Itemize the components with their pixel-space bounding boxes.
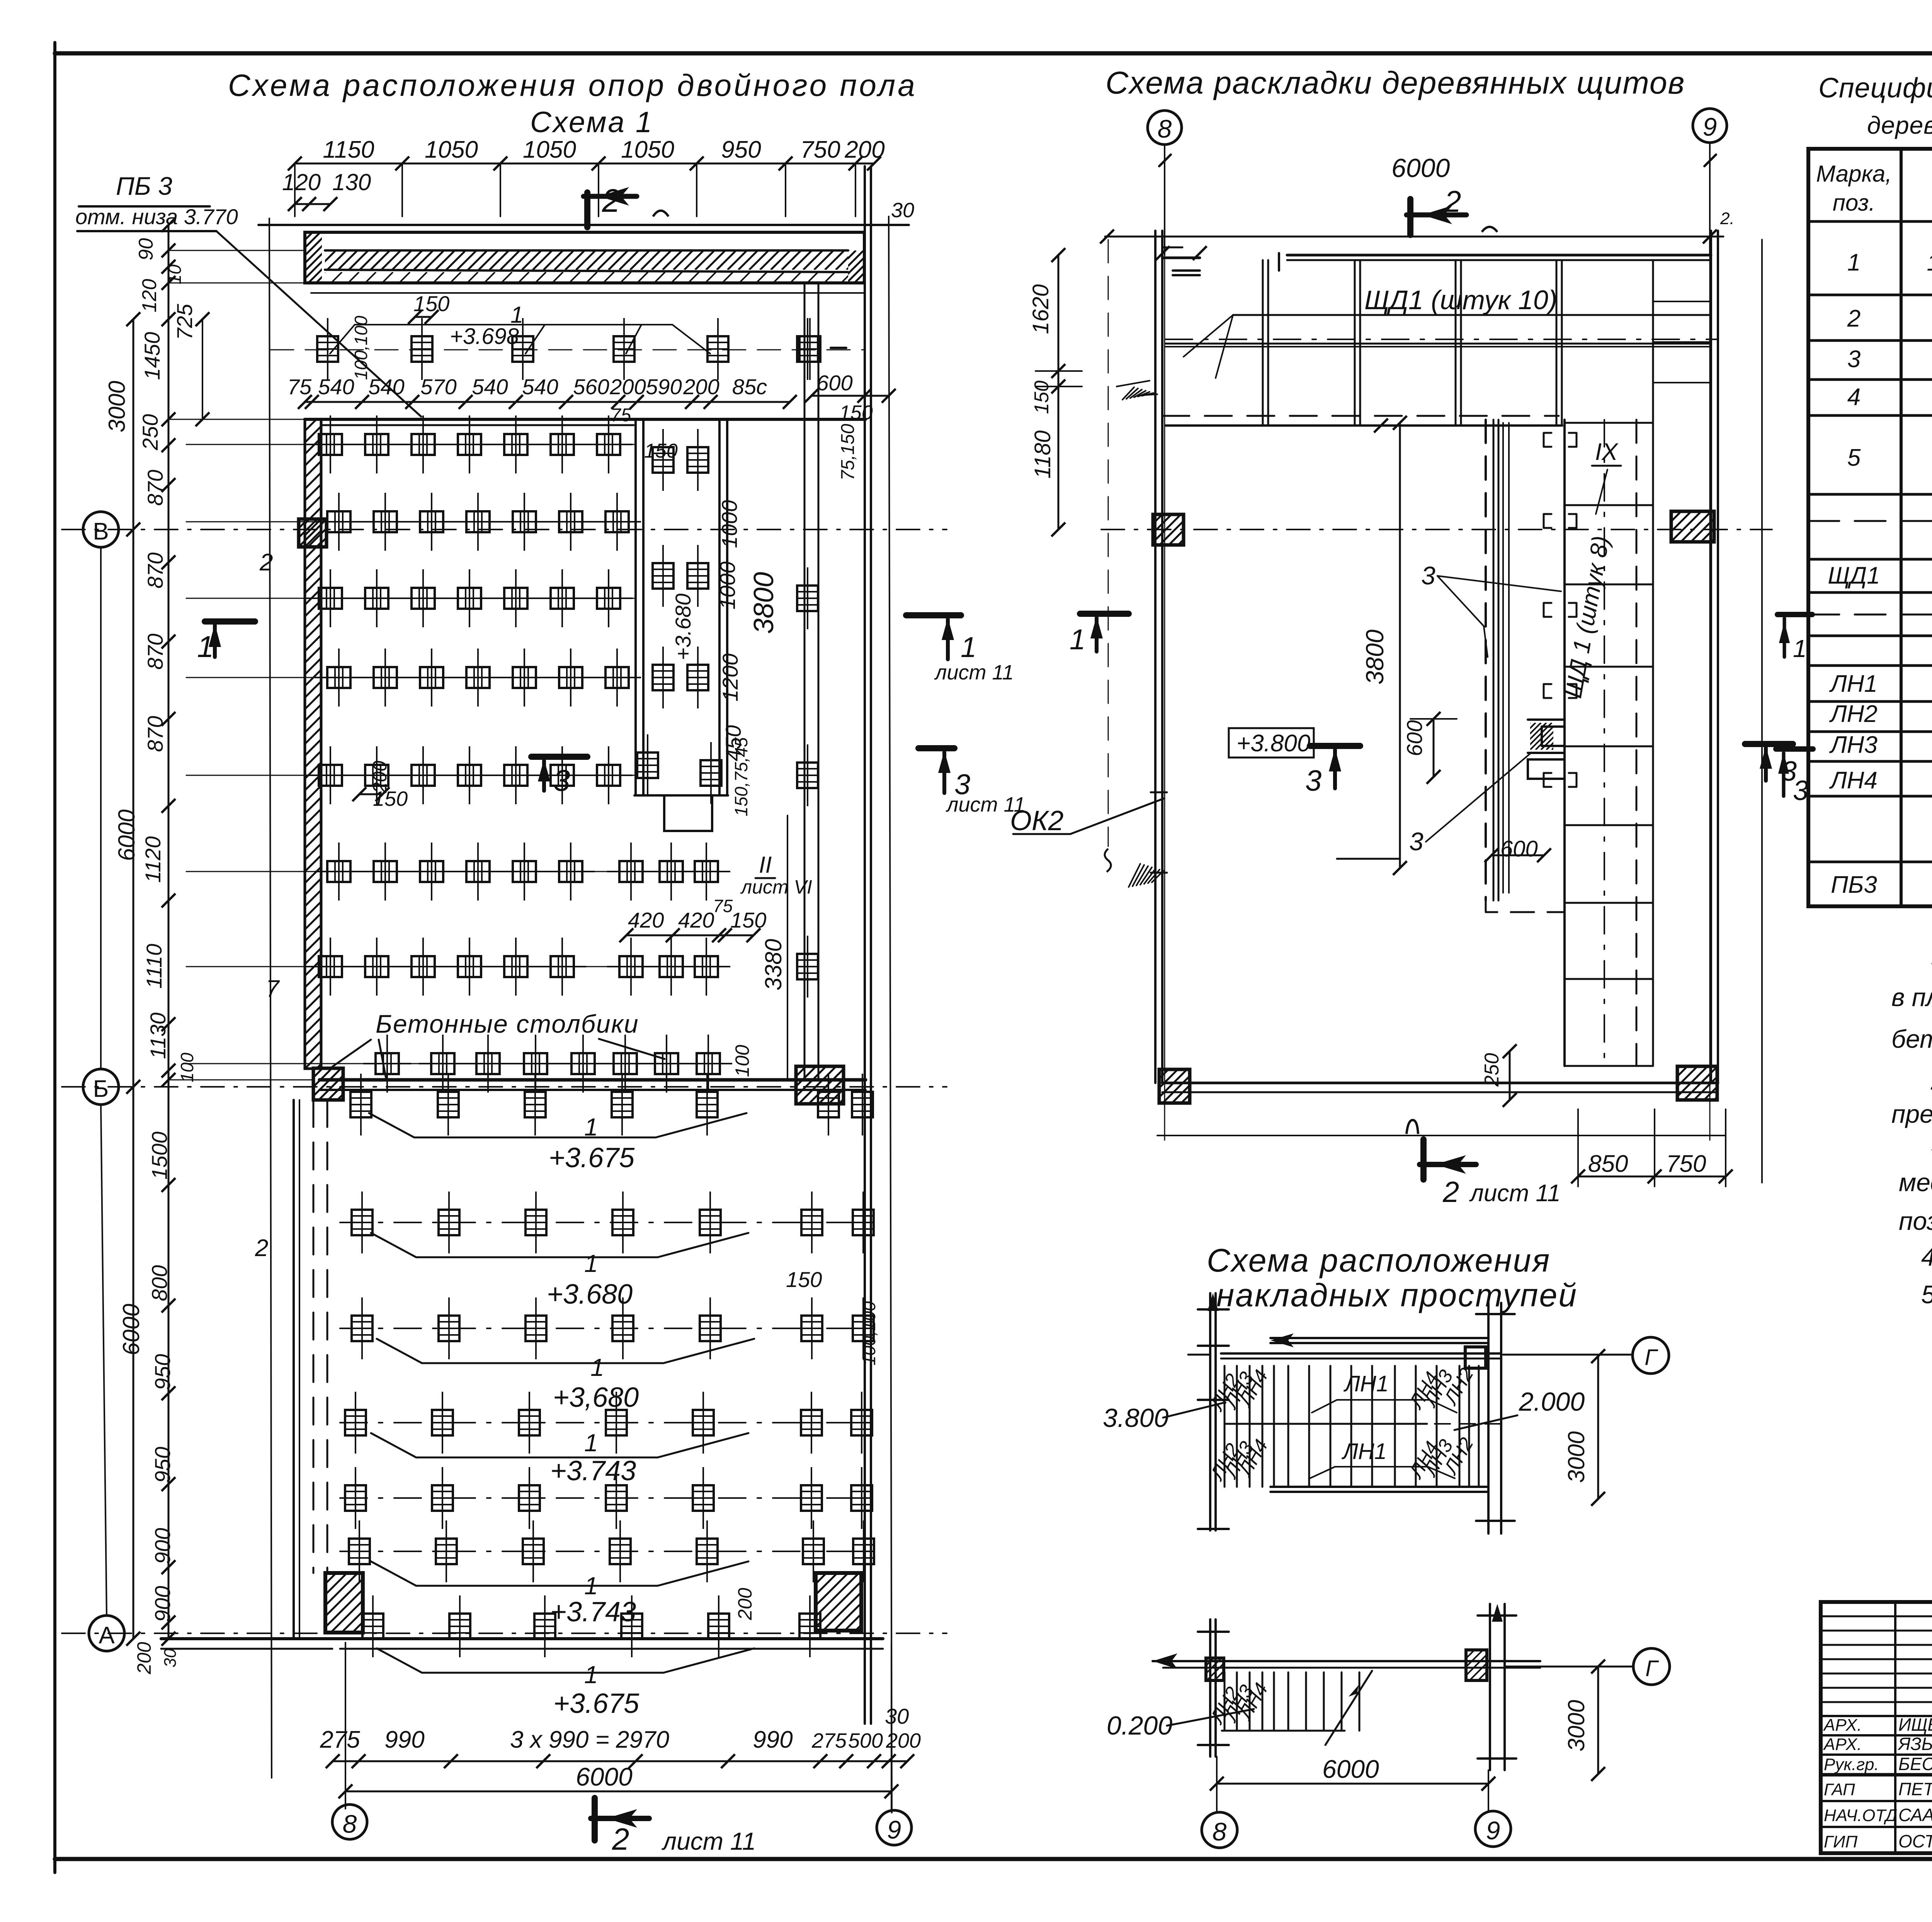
label IX bbox=[1592, 439, 1621, 514]
svg-text:поз.: поз. bbox=[1833, 190, 1875, 216]
label OK2 with leader bbox=[1010, 798, 1164, 836]
svg-text:ЛН1: ЛН1 bbox=[1341, 1439, 1387, 1464]
svg-text:570: 570 bbox=[420, 375, 456, 399]
svg-text:А: А bbox=[99, 1622, 115, 1649]
upper stair annotation 2.000 bbox=[1454, 1387, 1585, 1430]
svg-text:Рук.гр.: Рук.гр. bbox=[1824, 1755, 1879, 1774]
svg-text:3800: 3800 bbox=[748, 572, 779, 634]
upper stair corner block bbox=[1465, 1347, 1486, 1368]
svg-text:150: 150 bbox=[786, 1267, 822, 1292]
svg-text:200: 200 bbox=[734, 1588, 756, 1621]
svg-text:1: 1 bbox=[584, 1250, 598, 1277]
svg-text:200: 200 bbox=[609, 375, 646, 399]
svg-text:3000: 3000 bbox=[104, 381, 130, 432]
svg-text:накладных проступей: накладных проступей bbox=[1216, 1277, 1578, 1313]
svg-text:ЛН1: ЛН1 bbox=[1343, 1371, 1389, 1396]
spec table rows text bbox=[1828, 234, 1932, 898]
elevation box +3.800 bbox=[1229, 728, 1314, 758]
svg-text:850: 850 bbox=[1588, 1151, 1628, 1177]
svg-text:275: 275 bbox=[320, 1726, 360, 1753]
axis G lower bbox=[1506, 1648, 1670, 1685]
left exterior wall hatched bbox=[0, 419, 977, 1069]
svg-text:1. 400-15. В l. 120-50: 1. 400-15. В l. 120-50 bbox=[1927, 250, 1932, 276]
svg-text:560: 560 bbox=[573, 375, 609, 399]
svg-text:900: 900 bbox=[150, 1528, 175, 1564]
lower room axis dashdot rows bbox=[340, 1222, 881, 1551]
svg-text:75: 75 bbox=[713, 896, 733, 916]
lower stair labels bbox=[1206, 1679, 1272, 1728]
dim 250 rotated bbox=[1481, 1044, 1517, 1107]
svg-text:75: 75 bbox=[287, 375, 312, 399]
middle plan 6000 dim bbox=[1100, 153, 1723, 243]
spec table title bbox=[1818, 73, 1932, 139]
svg-text:3800: 3800 bbox=[1361, 629, 1389, 684]
section flag 2 top bbox=[583, 182, 668, 227]
section flag 2 bottom bbox=[591, 1798, 756, 1856]
svg-text:3.800: 3.800 bbox=[1103, 1403, 1168, 1433]
svg-text:870: 870 bbox=[143, 552, 167, 588]
svg-text:4. Узел IX смотрите на ли: 4. Узел IX смотрите на листе 11. bbox=[1921, 1243, 1932, 1271]
svg-text:1620: 1620 bbox=[1028, 284, 1053, 334]
middle plan bottom corner blocks bbox=[1126, 1066, 1758, 1103]
axis B(b) row bbox=[62, 1069, 947, 1105]
middle plan dims left 1620 150 1180 bbox=[1028, 248, 1082, 536]
stair axis circles 8 9 bbox=[1202, 1757, 1511, 1848]
dim 3800 rotated middle bbox=[1361, 416, 1407, 875]
lower stair wall line with blocks bbox=[1153, 1650, 1540, 1680]
svg-text:+3,680: +3,680 bbox=[553, 1382, 639, 1413]
right channel corridor verticals bbox=[311, 283, 865, 1080]
svg-text:2: 2 bbox=[602, 182, 620, 219]
svg-text:950: 950 bbox=[150, 1354, 175, 1390]
svg-text:в плане 200х150) н стенки: в плане 200х150) н стенки канала выполни… bbox=[1891, 983, 1932, 1011]
svg-text:+3.675: +3.675 bbox=[553, 1688, 639, 1719]
svg-text:1: 1 bbox=[197, 630, 214, 664]
middle plan axis circles top bbox=[1148, 109, 1727, 255]
svg-text:АРХ.: АРХ. bbox=[1823, 1735, 1862, 1754]
svg-text:1: 1 bbox=[584, 1661, 598, 1689]
flags 1 and 3 between plans bbox=[906, 615, 1026, 816]
svg-text:5: 5 bbox=[1847, 444, 1861, 471]
svg-text:150: 150 bbox=[644, 440, 678, 462]
dim 120 130 bbox=[282, 169, 371, 211]
svg-text:2: 2 bbox=[1847, 305, 1861, 332]
svg-text:Схема расположения опор двой: Схема расположения опор двойного пола bbox=[228, 68, 917, 102]
svg-text:Б: Б bbox=[93, 1076, 109, 1102]
svg-text:100: 100 bbox=[177, 1052, 197, 1082]
svg-text:3: 3 bbox=[1793, 775, 1808, 806]
upper stair bottom lines bbox=[1270, 1487, 1488, 1492]
Betonnye stolbiki label bbox=[332, 1010, 665, 1080]
svg-text:АРХ.: АРХ. bbox=[1823, 1716, 1862, 1735]
window OK2 ticks on wall bbox=[1151, 792, 1167, 873]
svg-text:3: 3 bbox=[1409, 827, 1423, 856]
svg-text:75: 75 bbox=[611, 405, 631, 426]
upper stair top landing lines bbox=[1221, 1333, 1501, 1359]
section flag 2 bottom middle plan bbox=[1406, 1120, 1561, 1209]
svg-text:СААКЬЯНЦ: СААКЬЯНЦ bbox=[1898, 1805, 1932, 1825]
svg-text:ГИП: ГИП bbox=[1824, 1832, 1857, 1851]
svg-text:9: 9 bbox=[1703, 112, 1717, 141]
panel field verticals bbox=[1162, 260, 1718, 432]
svg-text:800: 800 bbox=[147, 1265, 172, 1301]
elevation labels lower room bbox=[371, 1233, 754, 1719]
svg-text:950: 950 bbox=[150, 1447, 175, 1483]
svg-text:ПБ3: ПБ3 bbox=[1831, 872, 1877, 898]
left plan top dimension line bbox=[288, 136, 885, 216]
dim labels right side lower room bbox=[734, 1267, 879, 1621]
svg-text:120: 120 bbox=[282, 169, 321, 195]
svg-text:8: 8 bbox=[1213, 1817, 1227, 1846]
svg-text:600: 600 bbox=[1402, 720, 1427, 756]
svg-text:870: 870 bbox=[143, 633, 167, 669]
svg-text:5. ОК2 учтено в спецификац: 5. ОК2 учтено в спецификации на листе 9. bbox=[1921, 1280, 1932, 1309]
svg-text:+3.743: +3.743 bbox=[550, 1456, 636, 1486]
lower stair rails bbox=[1198, 1604, 1516, 1770]
svg-text:+3.680: +3.680 bbox=[547, 1279, 633, 1310]
svg-text:500: 500 bbox=[848, 1729, 883, 1752]
upper stair treads bbox=[1225, 1366, 1501, 1487]
left wall below B dashed bbox=[294, 1100, 327, 1639]
upper stair left rail bbox=[1198, 1293, 1229, 1530]
label 3 lower and 600 dim bbox=[1337, 754, 1551, 862]
svg-text:поз. 5 (см. узлы II ; III: поз. 5 (см. узлы II ; III на листе 11). bbox=[1899, 1207, 1932, 1235]
upper room supports grid bbox=[306, 415, 641, 996]
svg-text:200: 200 bbox=[683, 375, 719, 399]
svg-text:Схема раскладки деревянных щит: Схема раскладки деревянных щитов bbox=[1105, 65, 1685, 100]
svg-text:150: 150 bbox=[730, 908, 766, 932]
canal vertical walls in upper room bbox=[607, 419, 730, 996]
flag 3 in left plan bbox=[531, 757, 587, 797]
svg-text:2: 2 bbox=[1442, 1176, 1459, 1209]
elevation label +3.675 upper bbox=[369, 1113, 747, 1173]
svg-text:Спецификация к схемам располож: Спецификация к схемам расположения опор … bbox=[1818, 73, 1932, 104]
svg-text:1450: 1450 bbox=[140, 332, 164, 380]
svg-text:лист 11: лист 11 bbox=[934, 661, 1014, 684]
svg-text:590: 590 bbox=[646, 375, 682, 399]
svg-text:1: 1 bbox=[1847, 249, 1861, 276]
wall at axis B bbox=[282, 1066, 886, 1104]
upper zone +3.698 supports row bbox=[270, 291, 865, 380]
stair step detail hatched bbox=[1503, 720, 1584, 779]
svg-text:бетона марки 150.: бетона марки 150. bbox=[1891, 1025, 1932, 1053]
svg-text:3: 3 bbox=[1305, 764, 1321, 797]
svg-text:БЕСКОРОВАЙНЫЙ: БЕСКОРОВАЙНЫЙ bbox=[1898, 1753, 1932, 1774]
svg-text:100: 100 bbox=[731, 1045, 753, 1077]
svg-text:+3.743: +3.743 bbox=[550, 1597, 636, 1627]
svg-text:Г: Г bbox=[1645, 1345, 1658, 1370]
dim 3000 upper stair bbox=[1563, 1349, 1605, 1506]
svg-text:100,100: 100,100 bbox=[859, 1301, 879, 1365]
svg-text:275: 275 bbox=[811, 1729, 847, 1752]
svg-text:НАЧ.ОТД: НАЧ.ОТД bbox=[1824, 1806, 1897, 1825]
svg-text:30: 30 bbox=[885, 1704, 909, 1728]
svg-text:2.: 2. bbox=[1720, 209, 1735, 228]
upper stair annotation 3.800 bbox=[1103, 1403, 1223, 1433]
section line 2 vertical bbox=[255, 218, 280, 1778]
panel label SchD1 shtuk 10 bbox=[1184, 285, 1557, 378]
svg-text:540: 540 bbox=[318, 375, 354, 399]
svg-text:ЩД1: ЩД1 bbox=[1828, 562, 1880, 589]
lower stair annotation 0.200 bbox=[1107, 1709, 1254, 1740]
svg-text:ЩД1 (штук 10): ЩД1 (штук 10) bbox=[1364, 285, 1557, 315]
svg-text:Схема расположения: Схема расположения bbox=[1207, 1242, 1551, 1278]
svg-text:1150: 1150 bbox=[323, 136, 374, 163]
svg-text:130: 130 bbox=[332, 169, 371, 195]
bottom wall and corner blocks bbox=[161, 1573, 924, 1649]
notes text bbox=[1891, 941, 1932, 1309]
svg-text:Г: Г bbox=[1645, 1656, 1659, 1681]
middle plan outer walls bbox=[1155, 231, 1726, 1135]
svg-text:1: 1 bbox=[1070, 623, 1085, 655]
svg-text:ГАП: ГАП bbox=[1824, 1780, 1855, 1799]
svg-text:420: 420 bbox=[678, 908, 714, 932]
axis B wall block bbox=[271, 519, 364, 547]
svg-text:990: 990 bbox=[753, 1726, 793, 1753]
svg-text:+3.680: +3.680 bbox=[671, 594, 695, 661]
svg-text:1: 1 bbox=[1793, 635, 1807, 662]
svg-text:990: 990 bbox=[384, 1726, 424, 1753]
svg-text:750: 750 bbox=[1666, 1151, 1706, 1177]
svg-text:ЛН4: ЛН4 bbox=[1829, 767, 1878, 794]
axis circles 8 9 bottom left plan bbox=[332, 1805, 912, 1845]
svg-text:ИЩЕНКО: ИЩЕНКО bbox=[1898, 1714, 1932, 1735]
svg-text:0.200: 0.200 bbox=[1107, 1711, 1172, 1740]
supports above wall B bbox=[363, 1035, 732, 1093]
middle plan axis thin verticals bbox=[1165, 255, 1710, 1140]
svg-text:Схема 1: Схема 1 bbox=[530, 106, 653, 139]
svg-text:Марка,: Марка, bbox=[1816, 161, 1892, 187]
svg-text:ОСТАШЕВСКИЙ: ОСТАШЕВСКИЙ bbox=[1898, 1831, 1932, 1851]
svg-text:3 х 990 = 2970: 3 х 990 = 2970 bbox=[510, 1726, 669, 1753]
svg-text:540: 540 bbox=[472, 375, 508, 399]
svg-text:750: 750 bbox=[800, 136, 840, 163]
svg-text:2.000: 2.000 bbox=[1519, 1387, 1585, 1416]
panel connectors clips bbox=[1544, 433, 1577, 787]
stair treads right column bbox=[1565, 260, 1711, 1066]
spec table grid bbox=[1808, 149, 1932, 906]
axis 9 line left plan bbox=[889, 216, 892, 1813]
spec table header text bbox=[1816, 160, 1932, 216]
svg-text:1: 1 bbox=[590, 1353, 604, 1381]
middle plan axis B dashdot bbox=[1101, 529, 1772, 530]
dim extension dashed line left of middle plan bbox=[1105, 240, 1762, 1183]
svg-text:1050: 1050 bbox=[425, 136, 478, 163]
section flags left of table bbox=[1776, 615, 1813, 806]
svg-text:1200: 1200 bbox=[718, 654, 742, 702]
middle plan wall blocks axis B bbox=[1122, 511, 1752, 545]
dims 850 750 bottom right bbox=[1571, 1109, 1733, 1187]
svg-text:9: 9 bbox=[887, 1815, 901, 1844]
svg-text:540: 540 bbox=[522, 375, 558, 399]
left dim ladder vertical lines bbox=[101, 218, 325, 1646]
svg-text:II: II bbox=[759, 852, 772, 878]
svg-text:2: 2 bbox=[255, 1235, 268, 1261]
label 3 with leaders middle bbox=[1421, 561, 1561, 657]
svg-text:3: 3 bbox=[553, 763, 570, 797]
svg-text:3000: 3000 bbox=[1563, 1700, 1589, 1751]
svg-text:IX: IX bbox=[1595, 439, 1619, 465]
svg-text:600: 600 bbox=[1500, 836, 1538, 861]
svg-text:1110: 1110 bbox=[142, 944, 166, 989]
svg-text:местах примыкания к каналу: местах примыкания к каналу обрамить угол… bbox=[1899, 1168, 1932, 1197]
svg-text:+3.800: +3.800 bbox=[1236, 730, 1310, 757]
svg-text:2: 2 bbox=[1444, 184, 1461, 218]
svg-text:3000: 3000 bbox=[1563, 1431, 1589, 1483]
svg-text:6000: 6000 bbox=[114, 809, 139, 861]
middle plan top stubs bbox=[1173, 253, 1279, 275]
svg-text:725: 725 bbox=[172, 303, 197, 340]
svg-text:1120: 1120 bbox=[141, 836, 165, 883]
upper zone dim row 75 540 ... bbox=[287, 199, 914, 426]
upper room row lines bbox=[186, 444, 636, 1064]
stair well dashed boundary bbox=[1486, 420, 1565, 912]
svg-text:1180: 1180 bbox=[1030, 431, 1055, 479]
flag 1 in left plan bbox=[197, 621, 255, 664]
svg-text:ПЕТРОВСКИЙ: ПЕТРОВСКИЙ bbox=[1898, 1779, 1932, 1799]
svg-text:1500: 1500 bbox=[147, 1132, 172, 1180]
section flag 3 middle plan bbox=[1305, 746, 1360, 797]
svg-text:6000: 6000 bbox=[1322, 1755, 1379, 1783]
svg-text:лист VI: лист VI bbox=[740, 876, 812, 898]
flags 1 inside middle plan bbox=[1070, 614, 1129, 655]
svg-text:6000: 6000 bbox=[576, 1762, 633, 1791]
svg-text:600: 600 bbox=[816, 371, 852, 395]
name table texts bbox=[1823, 1714, 1932, 1851]
right wall double line bbox=[865, 166, 871, 1724]
supports below wall B +3.675 row bbox=[350, 1074, 873, 1135]
svg-text:1050: 1050 bbox=[523, 136, 576, 163]
svg-text:ЛН2: ЛН2 bbox=[1829, 701, 1878, 727]
svg-text:2: 2 bbox=[612, 1822, 629, 1856]
svg-text:предусмотреть установку закл: предусмотреть установку закладных элемен… bbox=[1891, 1100, 1932, 1128]
svg-text:150,75,45: 150,75,45 bbox=[731, 737, 751, 816]
svg-text:6000: 6000 bbox=[118, 1304, 144, 1355]
svg-text:85с: 85с bbox=[732, 375, 767, 399]
dim 600 rotated middle bbox=[1402, 712, 1457, 784]
svg-text:8: 8 bbox=[343, 1810, 357, 1838]
dim 3000 lower stair bbox=[1563, 1660, 1605, 1781]
svg-text:250: 250 bbox=[1481, 1053, 1503, 1087]
upper stair tread labels bbox=[1206, 1364, 1478, 1484]
svg-text:10: 10 bbox=[165, 264, 185, 284]
upper stair right rail bbox=[1476, 1303, 1515, 1534]
dim 6000 stairs bbox=[1210, 1755, 1495, 1791]
svg-text:1000: 1000 bbox=[715, 562, 740, 610]
svg-text:В: В bbox=[93, 518, 109, 545]
svg-text:ЛН1: ЛН1 bbox=[1829, 671, 1878, 697]
svg-text:4: 4 bbox=[1847, 384, 1861, 410]
svg-text:200: 200 bbox=[844, 136, 884, 163]
soil hatch marks middle plan bbox=[1117, 381, 1163, 887]
svg-text:30: 30 bbox=[891, 199, 914, 222]
svg-text:ПБ 3: ПБ 3 bbox=[116, 172, 172, 200]
svg-text:отм. низа 3.770: отм. низа 3.770 bbox=[75, 204, 238, 229]
axis A row bbox=[62, 1616, 947, 1651]
svg-text:+3.675: +3.675 bbox=[549, 1142, 635, 1173]
canal dim labels rotated bbox=[644, 424, 858, 1077]
svg-text:+3.698: +3.698 bbox=[450, 324, 519, 349]
svg-text:870: 870 bbox=[143, 716, 167, 752]
svg-text:120: 120 bbox=[138, 279, 161, 313]
svg-text:3: 3 bbox=[1421, 561, 1435, 590]
svg-text:75,150: 75,150 bbox=[838, 424, 858, 480]
svg-text:9: 9 bbox=[1486, 1816, 1500, 1845]
svg-text:30: 30 bbox=[161, 1648, 180, 1667]
lintel label PB3 bbox=[75, 172, 421, 417]
svg-text:лист 11: лист 11 bbox=[946, 793, 1026, 816]
bottom dim rows bbox=[320, 1643, 921, 1809]
top wall band with lintel bbox=[254, 225, 909, 283]
stair layout title bbox=[1207, 1242, 1578, 1313]
svg-text:1000: 1000 bbox=[717, 500, 742, 548]
svg-text:950: 950 bbox=[721, 136, 761, 163]
svg-text:ЛН3: ЛН3 bbox=[1829, 732, 1878, 758]
axis G upper bbox=[1188, 1337, 1669, 1374]
svg-text:лист 11: лист 11 bbox=[661, 1827, 756, 1855]
svg-text:1: 1 bbox=[961, 631, 976, 663]
main title block frame bbox=[1821, 1602, 1932, 1853]
svg-text:1: 1 bbox=[584, 1429, 598, 1457]
svg-text:100,100: 100,100 bbox=[351, 315, 371, 380]
dims 420 420 75 150 bbox=[619, 896, 766, 942]
svg-text:250: 250 bbox=[138, 414, 162, 450]
svg-text:200: 200 bbox=[133, 1642, 155, 1675]
label II list VI bbox=[740, 852, 812, 898]
left dim ladder labels bbox=[104, 238, 197, 1675]
svg-text:8: 8 bbox=[1158, 114, 1172, 143]
wall supports right side bbox=[797, 318, 846, 998]
flags right of middle plan bbox=[1745, 744, 1797, 787]
svg-text:2: 2 bbox=[259, 549, 273, 576]
axis B row bbox=[62, 512, 947, 547]
small dims 200 150 in room bbox=[352, 761, 408, 810]
svg-text:1130: 1130 bbox=[146, 1013, 170, 1059]
svg-text:ЯЗЫДЖАН: ЯЗЫДЖАН bbox=[1897, 1734, 1932, 1754]
svg-text:2. При бетонировании опор н: 2. При бетонировании опор н стенок канал… bbox=[1930, 1066, 1932, 1095]
room top wall line bbox=[305, 419, 866, 425]
svg-text:3: 3 bbox=[1847, 346, 1861, 373]
svg-text:7: 7 bbox=[266, 975, 280, 1002]
svg-text:6000: 6000 bbox=[1391, 153, 1450, 183]
svg-text:деревянных щитов н накладны: деревянных щитов н накладных проступей. bbox=[1867, 111, 1932, 139]
svg-text:150: 150 bbox=[1031, 381, 1053, 414]
lower stair treads bbox=[1222, 1671, 1372, 1745]
svg-text:870: 870 bbox=[143, 470, 167, 506]
svg-text:900: 900 bbox=[150, 1586, 175, 1622]
svg-text:3380: 3380 bbox=[760, 939, 786, 990]
middle plan section flag 2 top bbox=[1406, 184, 1497, 235]
svg-text:1050: 1050 bbox=[621, 136, 674, 163]
svg-text:Бетонные столбики: Бетонные столбики bbox=[376, 1010, 639, 1038]
left plan title bbox=[228, 68, 917, 139]
lower room supports rows bbox=[345, 1192, 874, 1657]
svg-text:лист 11: лист 11 bbox=[1469, 1180, 1561, 1207]
svg-text:540: 540 bbox=[368, 375, 404, 399]
svg-text:90: 90 bbox=[135, 238, 157, 260]
